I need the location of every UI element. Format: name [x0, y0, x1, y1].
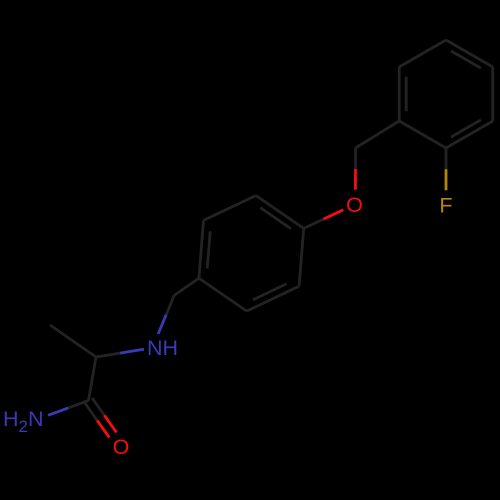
- double bond C2=O3 line 2, O half: [104, 415, 116, 432]
- ring1 inner double line edge f-a: [260, 208, 291, 229]
- ring1 benzene edge a-b: [299, 228, 304, 286]
- double bond C2=O3 line 2, C half: [92, 398, 104, 415]
- bond C9-ring2 D1: [356, 121, 400, 148]
- bond N1-C2 amide N to carbonyl C, C half: [68, 401, 88, 408]
- double bond C2=O3 line 1, C half: [85, 403, 97, 420]
- bond O8-C9 ether O to benzylic CH2, C half: [354, 148, 357, 169]
- bond N1-C2 amide N to carbonyl C, N half: [48, 408, 68, 415]
- ring2 inner double line edge D6-D1: [405, 77, 408, 112]
- ring1 benzene edge b-c: [247, 286, 299, 311]
- bond Ca-O8 ring C to ether O, C half: [304, 219, 324, 228]
- ring1 benzene edge e-f: [204, 196, 256, 221]
- ring2 inner double line edge D2-D3: [451, 120, 481, 137]
- ring1 benzene edge c-d: [199, 278, 247, 311]
- bond O8-C9 ether O to benzylic CH2, O half: [354, 169, 357, 190]
- svg-text:O: O: [346, 193, 363, 217]
- ring2 benzene edge D6-D1: [398, 67, 401, 121]
- ring2 benzene edge D3-D4: [491, 67, 494, 121]
- bond C4-C5 alpha C to methyl: [50, 325, 96, 357]
- bond N6-C7 NH to benzylic CH2, N half: [158, 315, 166, 334]
- ring1 inner double line edge b-c: [253, 284, 287, 300]
- ring2 benzene edge D2-D3: [446, 121, 493, 148]
- bond N6-C7 NH to benzylic CH2, C half: [166, 295, 174, 314]
- bond C7-ring1 Cd: [174, 278, 199, 295]
- bond D2-F10 ring C to fluorine, F half: [445, 169, 448, 190]
- bond C4-N6 alpha C to NH, N half: [120, 349, 144, 353]
- ring2 benzene edge D1-D2: [399, 121, 446, 148]
- ring2 benzene edge D5-D6: [399, 40, 446, 67]
- bond C4-N6 alpha C to NH, C half: [96, 353, 120, 357]
- ring1 benzene edge f-a: [256, 196, 304, 229]
- bond Ca-O8 ring C to ether O, O half: [324, 210, 344, 219]
- bond D2-F10 ring C to fluorine, C half: [445, 148, 448, 169]
- svg-text:O: O: [113, 435, 130, 459]
- ring1 inner double line edge d-e: [207, 231, 210, 268]
- ring1 benzene edge d-e: [199, 220, 204, 278]
- ring2 benzene edge D4-D5: [446, 40, 493, 67]
- bond C2-C4 carbonyl C to alpha C: [89, 357, 97, 401]
- svg-text:NH: NH: [147, 336, 178, 360]
- ring2 inner double line edge D4-D5: [451, 51, 481, 68]
- double bond C2=O3 line 1, O half: [97, 420, 109, 437]
- svg-text:F: F: [439, 193, 452, 217]
